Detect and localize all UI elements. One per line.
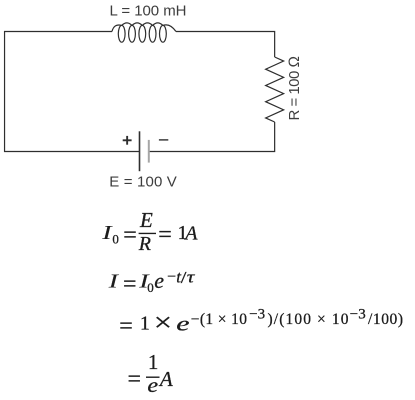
svg-text:−(1 × 10: −(1 × 10: [191, 311, 248, 328]
svg-text:=: =: [123, 271, 137, 297]
svg-text:=: =: [128, 367, 142, 393]
EQUATION LINE 4: = 1/e A: [128, 350, 173, 397]
svg-text:E: E: [139, 208, 153, 232]
svg-text:=: =: [119, 314, 133, 340]
inductor L1 coil loops: [118, 25, 166, 42]
svg-text:1: 1: [148, 350, 159, 374]
svg-text:)/(100 × 10: )/(100 × 10: [268, 311, 349, 328]
wire top-left loop: [5, 32, 140, 152]
svg-text:R = 100 Ω: R = 100 Ω: [286, 56, 303, 121]
battery E1 positive plate (long): [139, 131, 141, 171]
svg-text:τ: τ: [187, 268, 196, 287]
EQUATION LINE 1: I0 = E/R = 1A: [101, 208, 198, 255]
wire top-right: [176, 32, 275, 58]
svg-text:−3: −3: [350, 307, 366, 323]
EQUATION LINE 3: = 1 x e^(-(1x10^-3)/(100x10^-3/100)): [119, 307, 403, 340]
svg-text:0: 0: [112, 231, 119, 246]
fraction bar: [139, 232, 156, 234]
svg-text:=: =: [158, 222, 172, 248]
fraction bar: [146, 376, 160, 378]
wire bottom-right: [149, 122, 275, 152]
battery E1 negative plate (short, gray): [148, 140, 150, 163]
svg-text:L = 100 mH: L = 100 mH: [110, 3, 187, 20]
svg-text:e: e: [154, 268, 164, 293]
svg-text:R: R: [138, 233, 151, 255]
plus sign: [123, 136, 132, 145]
svg-text:×: ×: [154, 309, 172, 337]
svg-text:E = 100 V: E = 100 V: [109, 173, 177, 190]
svg-text:A: A: [183, 222, 198, 244]
svg-text:/100): /100): [368, 311, 403, 328]
minus sign: [159, 139, 168, 141]
resistor R1 zigzag: [266, 57, 284, 122]
svg-text:=: =: [123, 222, 137, 248]
svg-text:A: A: [158, 367, 173, 391]
svg-text:−3: −3: [249, 307, 265, 323]
svg-text:I: I: [107, 270, 120, 292]
svg-text:1: 1: [140, 313, 150, 335]
svg-text:e: e: [176, 312, 189, 336]
svg-text:0: 0: [147, 280, 154, 295]
svg-text:e: e: [147, 373, 158, 396]
inductor L1 coil bumps: [112, 23, 176, 32]
EQUATION LINE 2: I = I0 e^(-t/tau): [107, 268, 195, 298]
svg-text:−: −: [167, 269, 176, 286]
